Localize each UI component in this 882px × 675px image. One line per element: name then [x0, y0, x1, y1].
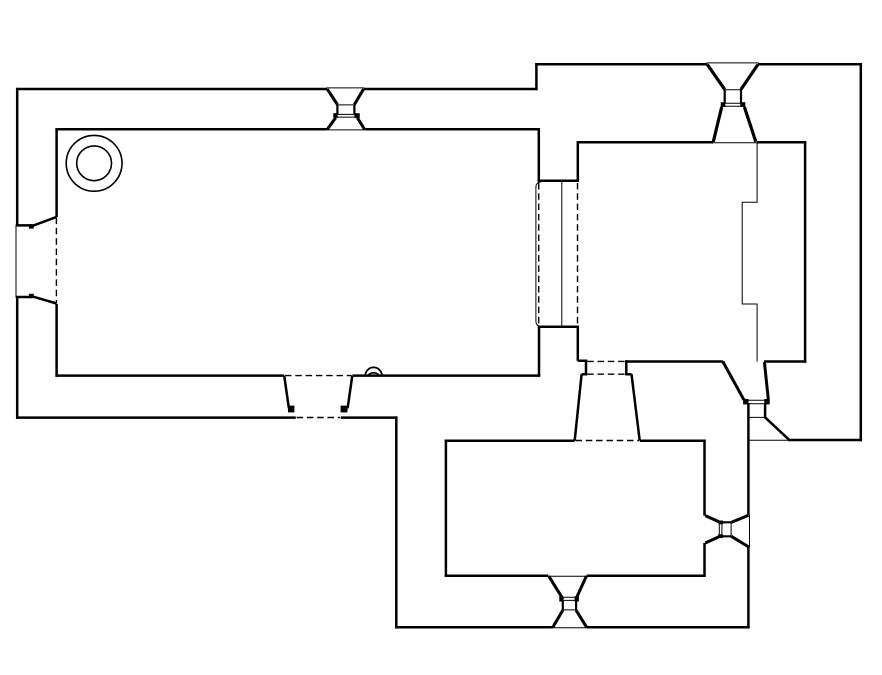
wall chapel east outer (upper segment): [747, 403, 750, 515]
wall chapel west outer: [395, 416, 398, 628]
window chapel south: frame bottom thin: [563, 609, 576, 611]
door nave south: dashed outer face: [297, 417, 340, 419]
wall chapel south outer (east segment): [587, 626, 750, 629]
arch mid step line (thin): [561, 181, 563, 327]
window chancel SE: sill notch east: [764, 399, 769, 404]
door nave west: south jamb: [16, 296, 57, 303]
window chapel south: inner splay west: [549, 576, 562, 597]
window tower north: frame: [725, 89, 741, 103]
window chapel east: sill lines: [719, 522, 722, 538]
window nave north: inner face thin line: [327, 129, 366, 131]
door nave south: west jamb stub: [288, 406, 294, 413]
wall south outer of chancel block: [789, 439, 862, 442]
window chapel east: outer face thin line: [749, 515, 751, 548]
wall chapel east inner (lower segment): [703, 543, 706, 577]
window tower north: sill notch east: [740, 102, 745, 107]
window chapel east: sill notch north: [718, 521, 723, 525]
window chapel south: inner face thin line: [548, 575, 588, 577]
wall tower north outer (west segment): [535, 63, 707, 66]
window tower north: inner face thin line: [713, 142, 757, 144]
wall chancel west inner (upper segment): [577, 141, 580, 181]
font: inner circle: [77, 146, 112, 181]
chancel east recess outline (thin): [742, 142, 757, 361]
window chapel east: frame right thin: [730, 522, 732, 536]
window nave north: outer face thin line: [327, 87, 365, 89]
wall chancel north inner (west segment): [578, 141, 714, 144]
passage splay west: [575, 374, 582, 440]
wall nave north outer (west segment): [17, 88, 327, 91]
dashed line chancel south door south face: [587, 373, 625, 375]
door nave south: west jamb: [284, 376, 289, 409]
door nave south: dashed inner face: [285, 375, 352, 377]
window chapel south: outer splay west: [553, 610, 563, 627]
window tower north: inner splay east: [744, 107, 755, 142]
window nave north: sill notch west: [333, 113, 337, 118]
wall nave south outer (west segment): [16, 416, 296, 419]
wall nave east inner face (lower segment): [538, 327, 541, 377]
window chapel south: sill notch west: [559, 596, 563, 601]
wall chapel south inner (east segment): [587, 574, 706, 577]
door nave west: dashed inner face: [55, 218, 57, 304]
wall nave west outer (upper segment): [16, 88, 19, 226]
wall east outer: [860, 63, 863, 441]
wall chancel south inner (east segment): [764, 360, 806, 363]
wall nave south inner (west segment): [55, 374, 284, 377]
window chancel SE: inner splay west: [723, 362, 744, 400]
font: outer circle: [66, 135, 122, 191]
window tower north: outer splay east: [741, 65, 758, 90]
wall chapel north inner (east segment): [640, 439, 706, 442]
window tower north: sill lines: [722, 103, 745, 106]
jamb tower arch south: [538, 326, 579, 329]
dashed line chancel south door north face: [587, 360, 625, 362]
window chapel east: outer splay south: [731, 536, 748, 547]
wall nave south inner (east segment): [353, 374, 541, 377]
window chapel east: frame: [722, 522, 731, 536]
window chapel south: sill notch east: [575, 596, 579, 601]
jamb chancel south door west: [578, 360, 587, 375]
stoup: inner arc: [368, 373, 379, 376]
passage splay east: [632, 374, 640, 440]
wall nave south outer (east segment): [341, 416, 398, 419]
wall diagonal outer SE: [764, 417, 790, 441]
window nave north: frame top thin: [337, 104, 354, 106]
wall chapel south outer (west segment): [395, 626, 553, 629]
window tower north: outer face thin line: [707, 62, 759, 64]
jamb chancel south door east: [625, 360, 631, 374]
door nave west: north jamb stub: [29, 224, 34, 228]
arch soffit outline (thin, rounded): [536, 182, 541, 326]
window tower north: frame top thin: [725, 89, 741, 91]
window chapel south: inner splay east: [577, 576, 587, 597]
window nave north: frame: [337, 105, 354, 115]
window chapel east: outer splay north: [731, 515, 748, 522]
wall nave east inner face (upper segment): [538, 128, 541, 181]
wall nave north outer (east segment): [364, 88, 538, 91]
window chapel south: outer face thin line: [552, 627, 588, 629]
wall chapel north inner (west segment): [445, 439, 575, 442]
dashed line tower arch west face: [538, 183, 540, 326]
wall nave west inner (lower segment): [55, 304, 58, 377]
window tower north: outer splay west: [707, 65, 724, 90]
wall tower north outer (east segment): [758, 63, 862, 66]
window chapel east: inner splay south: [705, 536, 720, 543]
window nave north: outer splay east: [354, 89, 363, 104]
window chancel SE: shaft east side: [764, 404, 767, 417]
wall chapel east outer (lower segment): [747, 547, 750, 629]
window nave north: inner splay east: [357, 118, 364, 130]
window tower north: inner splay west: [713, 107, 721, 142]
wall chapel south inner (west segment): [445, 574, 549, 577]
dashed line passage south face: [576, 440, 639, 442]
wall nave west outer (lower segment): [16, 297, 19, 419]
wall chapel east inner (upper segment): [703, 440, 706, 516]
wall nave west inner (upper segment): [55, 128, 58, 217]
door nave west: outer face thin line: [15, 225, 17, 298]
window nave north: inner splay west: [327, 118, 336, 130]
door nave south: east jamb stub: [341, 406, 348, 413]
wall chancel south inner (west segment): [625, 360, 723, 363]
wall chancel north inner (east segment): [757, 141, 806, 144]
window chancel SE: inner splay east: [764, 362, 768, 399]
wall chancel west inner (lower segment): [577, 327, 580, 361]
stoup: outer arc: [365, 367, 382, 375]
wall step between nave and tower block: [535, 63, 538, 90]
window chancel SE: shaft bottom thin: [748, 416, 765, 418]
wall nave north inner (west segment): [55, 128, 326, 131]
window chapel east: inner splay north: [705, 516, 720, 523]
window tower north: sill notch west: [721, 102, 726, 107]
window nave north: outer splay west: [327, 89, 337, 104]
window chapel south: outer splay east: [576, 610, 587, 627]
window chancel SE: sill lines: [744, 400, 769, 404]
window chapel east: sill notch south: [718, 534, 723, 538]
window chancel SE: outer face thin line: [748, 439, 789, 441]
jamb tower arch north: [538, 179, 579, 182]
wall nave north inner (east segment): [365, 128, 540, 131]
window chancel SE: sill notch west: [743, 399, 748, 404]
window chapel south: sill lines: [560, 597, 579, 600]
door nave south: east jamb: [348, 376, 353, 409]
window nave north: sill notch east: [354, 113, 359, 118]
window nave north: sill lines: [334, 114, 360, 117]
door nave west: south jamb stub: [29, 294, 34, 298]
wall chapel west inner: [445, 440, 448, 577]
dashed line tower arch east face: [577, 183, 579, 326]
window chapel south: frame: [563, 602, 576, 611]
door nave west: north jamb: [16, 217, 57, 226]
wall chancel east inner: [804, 141, 807, 363]
